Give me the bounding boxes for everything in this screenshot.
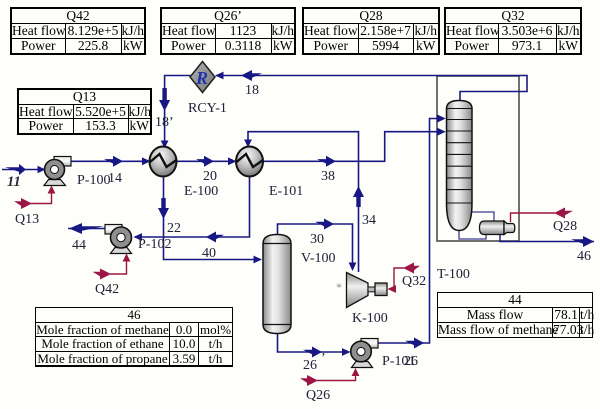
- table stream 46 compositions: [35, 307, 233, 367]
- label stream 11: [7, 174, 21, 190]
- svg-text:30: 30: [310, 232, 324, 247]
- svg-text:RCY-1: RCY-1: [188, 101, 227, 116]
- wire reboiler return to column bottom: [459, 231, 486, 240]
- sub-flowsheet box T-100 boundary: [437, 76, 519, 241]
- wire stream 40 E-101 to P-102: [134, 177, 250, 243]
- svg-text:Q26: Q26: [306, 388, 330, 403]
- wire stream 46 reboiler to product: [500, 235, 594, 247]
- table Q26': [160, 7, 296, 55]
- label V-100: [301, 251, 336, 266]
- wire column liquid draw to reboiler: [472, 212, 495, 221]
- svg-text:26: 26: [303, 358, 317, 373]
- table stream 44 flows: [437, 292, 593, 338]
- wire stream 38 E-101 to T-100: [263, 128, 446, 167]
- energy stream Q32 into K-100: [388, 263, 421, 293]
- svg-text:20: 20: [203, 169, 217, 184]
- label 18': [155, 115, 174, 130]
- heat exchanger E-100: [150, 147, 177, 177]
- label 30: [310, 232, 324, 247]
- label Q26: [306, 388, 330, 403]
- label 38: [321, 169, 335, 184]
- reboiler of T-100: [480, 221, 515, 235]
- wire stream 26' P-101 to T-100: [377, 114, 446, 348]
- svg-text:44: 44: [72, 238, 86, 253]
- label E-100: [184, 184, 218, 199]
- svg-text:14: 14: [108, 171, 122, 186]
- svg-text:’: ’: [321, 351, 326, 366]
- label E-101: [269, 184, 303, 199]
- energy stream Q42 into P-102: [93, 254, 131, 280]
- label K-100: [352, 311, 388, 326]
- energy stream Q13 into P-100: [14, 186, 55, 210]
- label Q42: [95, 282, 119, 297]
- label 40: [202, 246, 216, 261]
- compressor K-100: [336, 273, 387, 308]
- table Q42: [10, 7, 146, 55]
- pump P-101: [351, 339, 378, 368]
- svg-text:R: R: [195, 68, 208, 88]
- svg-text:T-100: T-100: [437, 267, 470, 282]
- label P-100: [77, 173, 110, 188]
- wire stream 26 V-100 to P-101: [278, 333, 351, 358]
- recycle RCY-1: [190, 62, 215, 93]
- wire stream 22 E-100 to V-100: [158, 177, 262, 264]
- wire stream 44 out of P-102: [68, 223, 106, 234]
- heat exchanger E-101: [236, 147, 263, 177]
- svg-text:Q32: Q32: [402, 274, 426, 289]
- label 18: [245, 83, 259, 98]
- wire stream 34 K-100 to E-101: [244, 132, 364, 272]
- wire stream 18 T-100 overhead to RCY-1: [215, 70, 527, 101]
- table Q13: [17, 88, 152, 135]
- svg-text:46: 46: [577, 249, 591, 264]
- label P-102: [138, 237, 171, 252]
- table Q32: [444, 7, 582, 55]
- svg-text:38: 38: [321, 169, 335, 184]
- svg-text:P-100: P-100: [77, 173, 110, 188]
- label 34: [362, 213, 376, 228]
- svg-text:11: 11: [7, 174, 21, 190]
- svg-text:P-102: P-102: [138, 237, 171, 252]
- separator V-100: [263, 235, 291, 334]
- wire stream 30 V-100 to K-100: [278, 219, 357, 272]
- svg-text:40: 40: [202, 246, 216, 261]
- energy stream Q28 into reboiler: [511, 208, 574, 223]
- label 20: [203, 169, 217, 184]
- svg-text:18: 18: [245, 83, 259, 98]
- svg-text:V-100: V-100: [301, 251, 336, 266]
- column T-100: [447, 101, 473, 231]
- svg-text:E-100: E-100: [184, 184, 218, 199]
- svg-text:18’: 18’: [155, 115, 174, 130]
- wire stream 18' RCY-1 to E-100: [159, 76, 190, 149]
- label Q32: [402, 274, 426, 289]
- svg-text:26: 26: [404, 354, 418, 369]
- wire stream 14 P-100 to E-100: [71, 156, 151, 167]
- pump P-102: [105, 225, 132, 254]
- label Q28: [553, 219, 577, 234]
- energy stream Q26 into P-101: [300, 368, 359, 386]
- svg-text:Q13: Q13: [15, 212, 39, 227]
- label Q13: [15, 212, 39, 227]
- wire stream 11 into P-100: [2, 164, 46, 175]
- label 14: [108, 171, 122, 186]
- svg-text:*: *: [336, 280, 342, 294]
- label RCY-1: [188, 101, 227, 116]
- svg-text:Q42: Q42: [95, 282, 119, 297]
- table Q28: [302, 7, 440, 55]
- label 26: [303, 351, 326, 373]
- wire stream 20 E-100 to E-101: [177, 156, 237, 167]
- label P-101: [382, 354, 415, 369]
- pump P-100: [44, 157, 71, 186]
- svg-text:E-101: E-101: [269, 184, 303, 199]
- label 26' outlet: [404, 354, 418, 369]
- svg-text:34: 34: [362, 213, 376, 228]
- label T-100: [437, 267, 470, 282]
- svg-text:22: 22: [167, 221, 181, 236]
- label 46: [577, 249, 591, 264]
- label 44: [72, 238, 86, 253]
- svg-text:Q28: Q28: [553, 219, 577, 234]
- label 22: [167, 221, 181, 236]
- svg-text:K-100: K-100: [352, 311, 388, 326]
